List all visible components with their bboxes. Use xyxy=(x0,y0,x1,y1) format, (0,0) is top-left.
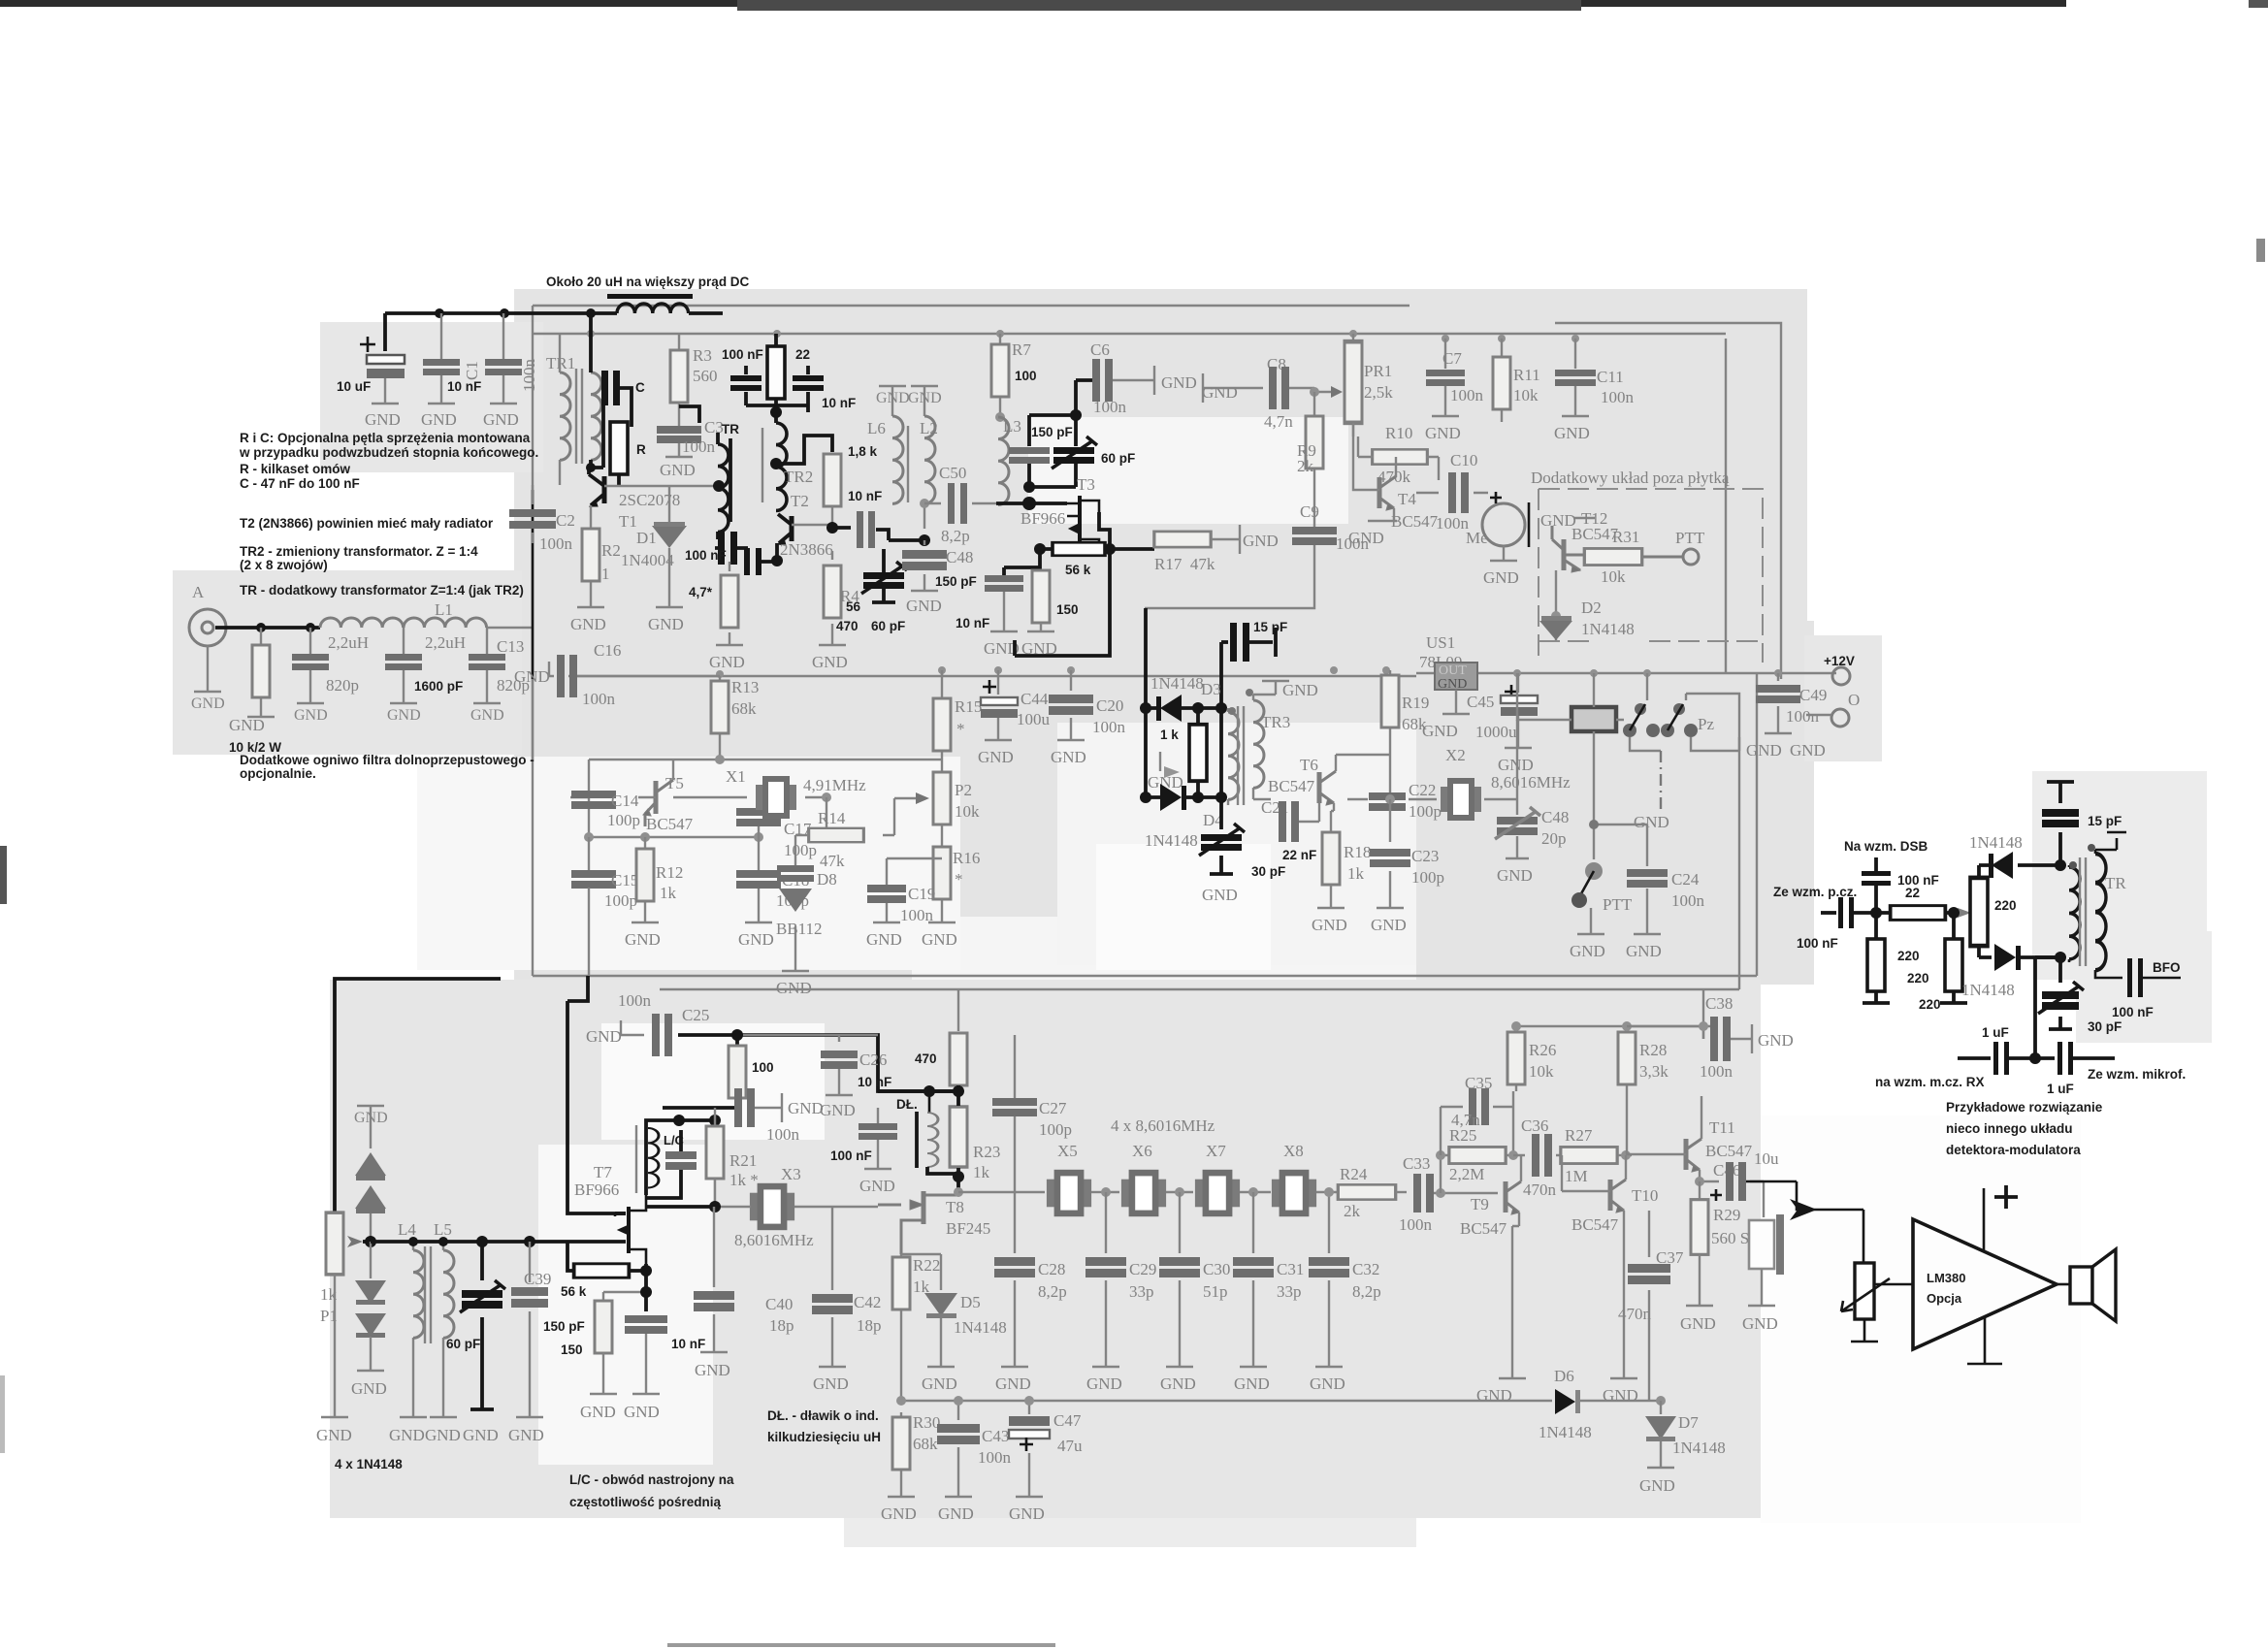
junction to 1uF row xyxy=(2035,957,2060,1058)
svg-text:33p: 33p xyxy=(1129,1282,1154,1301)
black distribution elbows xyxy=(878,1089,958,1093)
capacitor C36 470n xyxy=(1513,1154,1562,1156)
capacitor C20 100n xyxy=(1057,670,1085,740)
svg-text:C: C xyxy=(635,380,645,395)
speaker xyxy=(2070,1267,2092,1304)
svg-text:T2 (2N3866) powinien mieć mały: T2 (2N3866) powinien mieć mały radiator xyxy=(240,516,494,531)
svg-text:100n: 100n xyxy=(1601,388,1635,406)
resistor R28 3,3k xyxy=(1626,1026,1628,1155)
capacitor C40 18p xyxy=(700,1207,728,1352)
svg-text:C42: C42 xyxy=(854,1293,881,1311)
svg-text:C32: C32 xyxy=(1352,1260,1379,1278)
svg-text:R - kilkaset omów: R - kilkaset omów xyxy=(240,462,351,476)
capacitor C15 100p xyxy=(571,870,616,889)
capacitor C17 100p xyxy=(758,797,760,837)
TX feed wire (black vertical) xyxy=(532,490,535,679)
svg-text:T8: T8 xyxy=(946,1198,964,1216)
svg-text:8,2p: 8,2p xyxy=(1352,1282,1381,1301)
svg-text:Opcja: Opcja xyxy=(1927,1291,1962,1306)
capacitor C7 100n xyxy=(1432,339,1459,416)
resistor 10k/2W xyxy=(247,628,275,717)
wire from C25 node to IF strip xyxy=(678,1035,958,1091)
svg-text:BC547: BC547 xyxy=(1391,512,1439,531)
T4 emitter to GND xyxy=(1368,508,1397,521)
volume pot xyxy=(1855,1263,1874,1319)
svg-text:C9: C9 xyxy=(1300,502,1319,521)
svg-text:18p: 18p xyxy=(769,1316,794,1335)
capacitor C28 8,2p xyxy=(1001,1192,1028,1367)
svg-text:100n: 100n xyxy=(1399,1215,1433,1234)
svg-text:100p: 100p xyxy=(784,841,817,859)
PA gray frame xyxy=(533,306,1757,976)
svg-text:L6: L6 xyxy=(867,419,886,437)
diode D2 1N4148 xyxy=(1555,570,1557,640)
svg-text:US1: US1 xyxy=(1426,633,1455,652)
svg-text:C24: C24 xyxy=(1671,870,1700,889)
svg-text:470: 470 xyxy=(836,619,859,633)
resistor R26 10k xyxy=(1515,1026,1517,1091)
resistor R29 560 SL xyxy=(1699,1181,1701,1201)
resistor R18 1k xyxy=(1322,832,1340,885)
svg-text:R29: R29 xyxy=(1713,1206,1740,1224)
svg-text:100 nF: 100 nF xyxy=(830,1148,872,1163)
svg-text:2,2M: 2,2M xyxy=(1449,1165,1484,1183)
svg-text:100 nF: 100 nF xyxy=(2112,1005,2154,1019)
svg-text:R i C: Opcjonalna pętla sprzęż: R i C: Opcjonalna pętla sprzężenia monto… xyxy=(240,431,531,445)
T2 collector node wire xyxy=(792,524,832,526)
svg-text:GND: GND xyxy=(229,716,265,734)
svg-text:R: R xyxy=(636,442,646,457)
series capacitor 10nF (to L6) xyxy=(832,526,851,530)
capacitor C49 100n xyxy=(1765,673,1792,733)
svg-text:R7: R7 xyxy=(1012,340,1031,359)
svg-text:R28: R28 xyxy=(1639,1041,1667,1059)
svg-text:LM380: LM380 xyxy=(1927,1271,1965,1285)
svg-text:GND: GND xyxy=(1371,916,1407,934)
svg-text:Me: Me xyxy=(1466,529,1488,547)
svg-text:100p: 100p xyxy=(604,891,637,910)
svg-text:GND: GND xyxy=(1639,1476,1675,1495)
svg-text:1N4148: 1N4148 xyxy=(954,1318,1007,1337)
svg-text:DŁ.: DŁ. xyxy=(896,1097,918,1112)
svg-text:GND: GND xyxy=(866,930,902,949)
diode D7 1N4148 xyxy=(1656,1396,1666,1406)
scan gray washes xyxy=(173,289,2212,1547)
svg-text:T2: T2 xyxy=(791,492,809,510)
capacitor C50 8,2p xyxy=(924,502,996,504)
Pz wire box xyxy=(1647,673,1739,751)
svg-text:R24: R24 xyxy=(1340,1165,1368,1183)
svg-text:8,6016MHz: 8,6016MHz xyxy=(1491,773,1571,792)
capacitor C35 4,7n xyxy=(1441,1091,1513,1155)
svg-text:1 uF: 1 uF xyxy=(1982,1025,2009,1040)
svg-text:C - 47 nF do 100 nF: C - 47 nF do 100 nF xyxy=(240,476,360,491)
wire antenna to filter xyxy=(215,626,320,630)
svg-text:C31: C31 xyxy=(1277,1260,1304,1278)
transistor T10 BC547 xyxy=(1610,1180,1626,1212)
svg-text:100n: 100n xyxy=(1671,891,1705,910)
bottom center faint line xyxy=(667,1643,1055,1647)
svg-text:GND: GND xyxy=(1438,677,1467,692)
transistor T2 2N3866 xyxy=(778,514,792,545)
svg-text:kilkudziesięciu uH: kilkudziesięciu uH xyxy=(767,1430,881,1444)
varicap D8 BB112 xyxy=(782,835,809,971)
svg-text:GND: GND xyxy=(938,1504,974,1523)
T3 drain/source wiring xyxy=(1040,512,1110,567)
capacitor C23 100p xyxy=(1377,799,1404,908)
svg-text:GND: GND xyxy=(1746,741,1782,760)
svg-text:D2: D2 xyxy=(1581,598,1602,617)
svg-text:GND: GND xyxy=(978,748,1014,766)
svg-text:150: 150 xyxy=(561,1342,583,1357)
resistor R15 * xyxy=(941,670,943,676)
resistor R21 1k* xyxy=(714,1108,716,1125)
svg-text:GND: GND xyxy=(1243,532,1279,550)
svg-text:X5: X5 xyxy=(1057,1142,1078,1160)
svg-text:C48: C48 xyxy=(946,548,973,566)
svg-text:22: 22 xyxy=(795,347,810,362)
capacitor C33 100n xyxy=(1413,1174,1434,1212)
svg-text:10k: 10k xyxy=(1601,567,1626,586)
svg-text:100: 100 xyxy=(752,1060,774,1075)
capacitor C48 150pF xyxy=(911,540,938,591)
resistor R3 560 xyxy=(678,334,680,349)
svg-text:C6: C6 xyxy=(1090,340,1110,359)
svg-text:Ze wzm. mikrof.: Ze wzm. mikrof. xyxy=(2088,1067,2186,1082)
svg-text:R14: R14 xyxy=(818,809,846,827)
+12V rail y=344 xyxy=(533,333,1726,335)
svg-text:BC547: BC547 xyxy=(1705,1142,1753,1160)
svg-text:100n: 100n xyxy=(618,991,652,1010)
svg-text:4 x 1N4148: 4 x 1N4148 xyxy=(335,1457,403,1471)
svg-text:GND: GND xyxy=(1498,756,1534,774)
capacitor C3 100n xyxy=(665,417,693,457)
svg-text:PTT: PTT xyxy=(1675,529,1705,547)
svg-text:10 nF: 10 nF xyxy=(858,1075,891,1089)
svg-text:C20: C20 xyxy=(1096,696,1123,715)
svg-text:100n: 100n xyxy=(682,437,716,456)
trimmer 60pF (PA out) xyxy=(889,538,924,542)
svg-text:R22: R22 xyxy=(913,1256,940,1275)
svg-text:2,2uH: 2,2uH xyxy=(425,633,466,652)
left edge marks xyxy=(0,846,7,904)
svg-text:BFO: BFO xyxy=(2153,960,2181,975)
svg-text:GND: GND xyxy=(1603,1386,1638,1405)
svg-text:C44: C44 xyxy=(1021,690,1049,708)
capacitor C24 100n xyxy=(1634,824,1661,934)
svg-text:BC547: BC547 xyxy=(1460,1219,1507,1238)
svg-text:GND: GND xyxy=(1680,1314,1716,1333)
input arrow from C46 xyxy=(1746,1181,1863,1263)
svg-text:T3: T3 xyxy=(1077,475,1095,494)
svg-text:GND: GND xyxy=(1310,1374,1345,1393)
X2 right wire up xyxy=(1484,720,1517,799)
svg-text:PTT: PTT xyxy=(1603,895,1633,914)
resistor 220 #1 xyxy=(1874,913,1878,939)
capacitor 820p (first) xyxy=(309,628,311,702)
svg-text:470: 470 xyxy=(915,1051,937,1066)
node vertical from y783 wire down to T5 xyxy=(588,760,590,837)
svg-text:C49: C49 xyxy=(1799,686,1827,704)
C9 lower wire loop to modulator xyxy=(1145,555,1314,608)
svg-text:100n: 100n xyxy=(1093,398,1127,416)
svg-text:1k: 1k xyxy=(1347,864,1365,883)
capacitor C13 820p xyxy=(487,628,533,702)
svg-text:D3: D3 xyxy=(1201,680,1221,698)
trimmer PR1 2,5k xyxy=(1352,334,1354,436)
svg-text:BB112: BB112 xyxy=(776,920,823,938)
svg-text:Dodatkowe ogniwo filtra dolnop: Dodatkowe ogniwo filtra dolnoprzepustowe… xyxy=(240,753,535,767)
svg-text:R31: R31 xyxy=(1612,528,1639,546)
svg-text:20p: 20p xyxy=(1541,829,1567,848)
svg-text:GND: GND xyxy=(586,1027,622,1046)
svg-text:100n: 100n xyxy=(1092,718,1126,736)
svg-text:8,2p: 8,2p xyxy=(1038,1282,1067,1301)
capacitor C14 100p xyxy=(570,796,589,798)
diode D5 1N4148 xyxy=(927,1254,955,1367)
wire down to C4 electrolytic xyxy=(383,313,387,351)
svg-text:GND: GND xyxy=(1051,748,1086,766)
svg-text:X1: X1 xyxy=(726,767,746,786)
svg-text:150 pF: 150 pF xyxy=(543,1319,585,1334)
capacitor C44 100u xyxy=(983,680,996,694)
wire T3 source right to R17 xyxy=(1110,547,1154,551)
100nF cap (black, vertical) xyxy=(1874,857,1878,871)
svg-text:470n: 470n xyxy=(1523,1180,1557,1199)
svg-text:R26: R26 xyxy=(1529,1041,1556,1059)
svg-text:C33: C33 xyxy=(1403,1154,1430,1173)
black vertical feeds xyxy=(1146,608,1221,797)
node dot below R7 xyxy=(1070,409,1082,421)
pot wiper to LM380 xyxy=(1874,1283,1913,1286)
ground under connector xyxy=(207,646,209,691)
resistor 220 #3 xyxy=(1970,878,1988,946)
svg-text:C11: C11 xyxy=(1597,368,1624,386)
svg-text:Pz: Pz xyxy=(1698,715,1714,733)
svg-text:C35: C35 xyxy=(1465,1074,1492,1092)
svg-text:1N4148: 1N4148 xyxy=(1961,981,2015,999)
svg-text:2k: 2k xyxy=(1297,457,1314,475)
svg-text:1k: 1k xyxy=(973,1163,990,1181)
svg-text:10 nF: 10 nF xyxy=(822,396,856,410)
capacitor C29 33p xyxy=(1092,1192,1119,1367)
svg-text:BF966: BF966 xyxy=(574,1180,619,1199)
dash-dot to GND xyxy=(1660,751,1662,810)
O terminal xyxy=(1831,709,1849,727)
svg-text:L4: L4 xyxy=(398,1220,416,1239)
IF output long wire y=1444 xyxy=(901,1400,1552,1402)
resistor 22 (series) xyxy=(1891,906,1946,921)
svg-text:GND: GND xyxy=(660,461,696,479)
svg-text:GND: GND xyxy=(483,410,519,429)
svg-text:T6: T6 xyxy=(1300,756,1318,774)
svg-text:detektora-modulatora: detektora-modulatora xyxy=(1946,1143,2081,1157)
svg-text:*: * xyxy=(955,870,963,889)
svg-text:C37: C37 xyxy=(1656,1248,1684,1267)
svg-text:22: 22 xyxy=(1905,886,1920,900)
svg-text:GND: GND xyxy=(709,653,745,671)
svg-text:1N4148: 1N4148 xyxy=(1150,674,1204,693)
svg-text:C43: C43 xyxy=(982,1427,1009,1445)
svg-text:(2 x 8 zwojów): (2 x 8 zwojów) xyxy=(240,558,328,572)
L/C tank xyxy=(646,1120,715,1195)
scanner top edge artifact xyxy=(0,0,2066,7)
capacitor 1600pF xyxy=(403,628,405,702)
svg-text:X3: X3 xyxy=(781,1165,801,1183)
svg-text:100n: 100n xyxy=(900,906,934,924)
svg-text:P2: P2 xyxy=(955,781,972,799)
100 nF (gray cap near choke) xyxy=(864,1108,891,1169)
svg-text:18p: 18p xyxy=(857,1316,882,1335)
svg-text:220: 220 xyxy=(1897,949,1920,963)
svg-text:GND: GND xyxy=(776,979,812,997)
capacitor C1 100n xyxy=(490,313,517,404)
capacitor C43 100n xyxy=(945,1401,972,1497)
svg-text:X2: X2 xyxy=(1445,746,1466,764)
LM380 triangle xyxy=(1913,1219,2057,1349)
svg-text:1000u: 1000u xyxy=(1475,723,1517,741)
svg-text:GND: GND xyxy=(1570,942,1605,960)
svg-text:100p: 100p xyxy=(1039,1120,1072,1139)
svg-text:100n: 100n xyxy=(1450,386,1484,404)
svg-text:BC547: BC547 xyxy=(1571,1215,1619,1234)
svg-text:1N4148: 1N4148 xyxy=(1539,1423,1592,1441)
svg-text:100n: 100n xyxy=(1436,514,1470,533)
svg-text:4,7n: 4,7n xyxy=(1264,412,1293,431)
svg-text:51p: 51p xyxy=(1203,1282,1228,1301)
svg-text:opcjonalnie.: opcjonalnie. xyxy=(240,766,316,781)
diode D1 1N4004 xyxy=(656,486,683,607)
capacitor 15pF xyxy=(2047,782,2074,865)
svg-text:BC547: BC547 xyxy=(1268,777,1315,795)
svg-text:R23: R23 xyxy=(973,1143,1000,1161)
svg-text:GND: GND xyxy=(421,410,457,429)
svg-text:100 nF: 100 nF xyxy=(685,548,727,563)
resistor 1,8k xyxy=(824,454,841,506)
svg-text:L5: L5 xyxy=(434,1220,452,1239)
svg-text:A: A xyxy=(192,583,205,601)
svg-text:100p: 100p xyxy=(607,811,640,829)
svg-text:D6: D6 xyxy=(1554,1367,1574,1385)
svg-text:1M: 1M xyxy=(1565,1167,1588,1185)
antenna connector xyxy=(189,609,226,646)
svg-text:Na wzm. DSB: Na wzm. DSB xyxy=(1844,839,1928,854)
base wire of T1 xyxy=(604,485,719,487)
svg-text:100 nF: 100 nF xyxy=(722,347,763,362)
T1 emitter resistor R2 xyxy=(577,505,604,607)
svg-text:150: 150 xyxy=(1056,602,1079,617)
svg-text:2k: 2k xyxy=(1344,1202,1361,1220)
svg-text:68k: 68k xyxy=(1402,715,1427,733)
svg-text:TR - dodatkowy transformator Z: TR - dodatkowy transformator Z=1:4 (jak … xyxy=(240,583,524,598)
svg-text:R12: R12 xyxy=(656,863,683,882)
svg-text:R11: R11 xyxy=(1513,366,1540,384)
svg-text:100n: 100n xyxy=(1700,1062,1733,1081)
svg-text:820p: 820p xyxy=(326,676,359,695)
capacitor C37 470n xyxy=(1648,1211,1650,1401)
svg-text:100: 100 xyxy=(1015,369,1037,383)
svg-text:GND: GND xyxy=(788,1099,824,1117)
T5 base wire xyxy=(638,796,656,798)
svg-text:C19: C19 xyxy=(908,885,935,903)
svg-text:GND: GND xyxy=(1282,681,1318,699)
svg-text:T7: T7 xyxy=(594,1163,612,1181)
svg-text:GND: GND xyxy=(389,1426,425,1444)
long mid horizontal wires xyxy=(660,737,1739,989)
resistor 1k (black) xyxy=(1189,725,1207,781)
svg-text:1N4148: 1N4148 xyxy=(1672,1439,1726,1457)
svg-text:1N4004: 1N4004 xyxy=(621,551,674,569)
svg-text:220: 220 xyxy=(1907,971,1929,986)
svg-text:GND: GND xyxy=(1554,424,1590,442)
svg-text:GND: GND xyxy=(463,1426,499,1444)
svg-text:R21: R21 xyxy=(729,1151,757,1170)
svg-text:na wzm. m.cz. RX: na wzm. m.cz. RX xyxy=(1875,1075,1985,1089)
svg-text:w przypadku podwzbudzeń stopni: w przypadku podwzbudzeń stopnia końcoweg… xyxy=(239,445,538,460)
capacitor C9 100n xyxy=(1313,524,1315,555)
svg-text:BF966: BF966 xyxy=(1021,509,1065,528)
mic sub-board frame xyxy=(1555,323,1781,679)
svg-text:Dodatkowy układ poza płytką: Dodatkowy układ poza płytką xyxy=(1531,469,1730,487)
microphone Me xyxy=(1482,503,1525,546)
svg-text:1N4148: 1N4148 xyxy=(1969,833,2023,852)
svg-text:33p: 33p xyxy=(1277,1282,1302,1301)
svg-text:30 pF: 30 pF xyxy=(2088,1019,2122,1034)
diode chain 4x1N4148 xyxy=(354,1106,388,1126)
svg-text:nieco innego układu: nieco innego układu xyxy=(1946,1121,2073,1136)
svg-text:C25: C25 xyxy=(682,1006,709,1024)
capacitor C30 51p xyxy=(1166,1192,1193,1367)
capacitor C (optional loop) xyxy=(591,405,603,468)
T5 collector up xyxy=(672,760,674,780)
capacitor C19 100n xyxy=(873,858,942,922)
svg-text:1N4148: 1N4148 xyxy=(1581,620,1635,638)
svg-text:C29: C29 xyxy=(1129,1260,1156,1278)
BFO coupling cap 100nF xyxy=(2127,958,2143,997)
svg-text:GND: GND xyxy=(1483,568,1519,587)
svg-text:R13: R13 xyxy=(731,678,759,696)
svg-text:100n: 100n xyxy=(766,1125,800,1144)
jog to 1,8k resistor xyxy=(776,436,832,464)
svg-text:1 uF: 1 uF xyxy=(2047,1082,2074,1096)
diode 1N4148 bottom xyxy=(1979,946,1992,957)
svg-text:4,91MHz: 4,91MHz xyxy=(803,776,866,794)
capacitor C39 150pF xyxy=(516,1242,543,1417)
svg-text:GND: GND xyxy=(881,1504,917,1523)
TR1 secondary bottom to T1 collector xyxy=(589,313,593,372)
svg-text:1N4148: 1N4148 xyxy=(1145,831,1198,850)
output to speaker xyxy=(2057,1283,2070,1286)
svg-text:GND: GND xyxy=(1425,424,1461,442)
svg-text:TR3: TR3 xyxy=(1261,713,1290,731)
svg-text:100n: 100n xyxy=(520,359,538,393)
svg-text:GND: GND xyxy=(1626,942,1662,960)
svg-text:T11: T11 xyxy=(1709,1118,1735,1137)
T9 collector/emitter xyxy=(1499,1155,1526,1378)
svg-text:OUT: OUT xyxy=(1439,663,1467,678)
svg-text:220: 220 xyxy=(1994,898,2017,913)
svg-text:GND: GND xyxy=(1422,722,1458,740)
capacitor C31 33p xyxy=(1240,1192,1267,1367)
svg-text:R10: R10 xyxy=(1385,424,1412,442)
trimmer 60pF xyxy=(470,1242,494,1409)
svg-text:C26: C26 xyxy=(859,1051,887,1069)
svg-text:1: 1 xyxy=(601,565,610,583)
svg-text:10 nF: 10 nF xyxy=(447,379,481,394)
svg-text:C13: C13 xyxy=(497,637,524,656)
capacitor 1uF (right) xyxy=(2057,1042,2073,1075)
svg-text:R19: R19 xyxy=(1402,694,1429,712)
